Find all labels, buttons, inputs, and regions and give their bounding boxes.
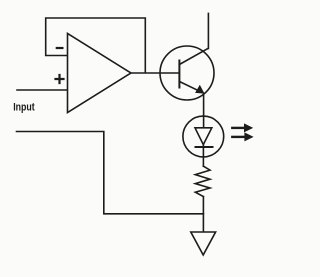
op-amp U1 [68, 34, 132, 113]
wire non-inverting input [17, 89, 67, 91]
wire return path from input side to ground node [17, 132, 204, 214]
LED D1 diode triangle [195, 128, 212, 145]
transistor Q1 emitter stroke with arrowhead [179, 82, 202, 93]
wire LED cathode to resistor [202, 145, 204, 167]
wire feedback loop (op-amp output to inverting input) [46, 18, 146, 73]
transistor Q1 emitter arrowhead [195, 85, 204, 94]
op-amp U1 non-inverting input label (+) [56, 75, 64, 83]
wire collector supply stub [207, 13, 209, 48]
transistor Q1 collector stroke [179, 49, 208, 65]
op-amp U1 inverting input label (-) [57, 47, 63, 49]
ground [191, 232, 216, 255]
resistor R1 [195, 166, 210, 196]
svg-text:Input: Input [13, 102, 35, 114]
LED D1 light arrow lower [231, 132, 254, 141]
transistor Q1 [160, 46, 214, 100]
wire emitter to LED anode [203, 94, 205, 128]
LED D1 light arrow upper [231, 123, 253, 132]
wire resistor to ground node [202, 197, 204, 232]
LED D1 circle [183, 116, 224, 157]
LED D1 cathode bar [196, 146, 213, 148]
wire op-amp output to transistor base [132, 72, 179, 74]
transistor Q1 base bar [178, 61, 180, 88]
